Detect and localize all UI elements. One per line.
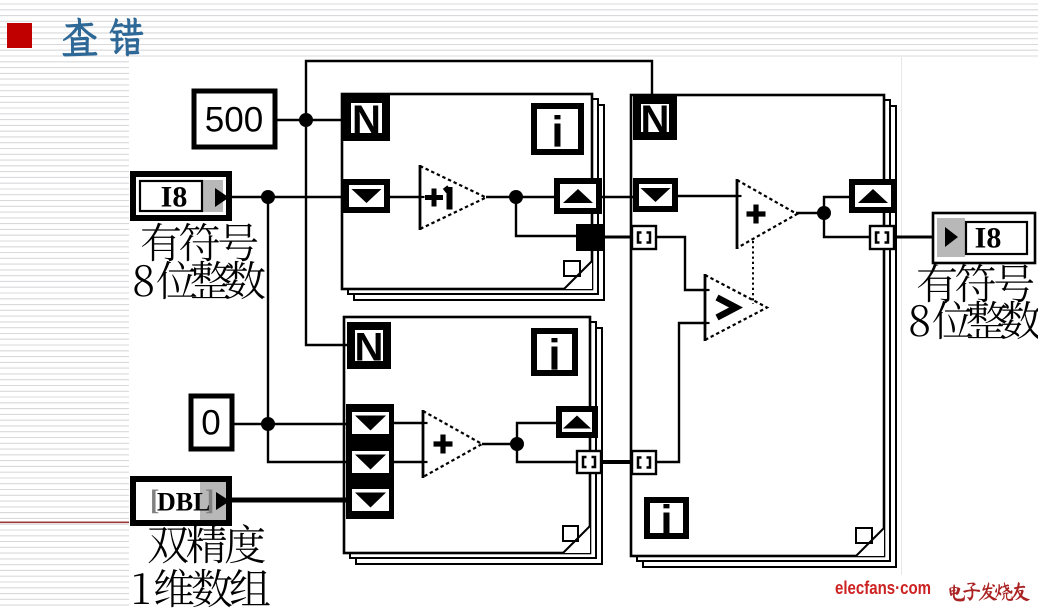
svg-text:N: N	[352, 98, 381, 142]
svg-text:i: i	[551, 108, 563, 157]
svg-text:DBL: DBL	[157, 488, 210, 517]
svg-text:i: i	[548, 331, 560, 380]
svg-text:N: N	[355, 326, 384, 370]
svg-text:]: ]	[205, 486, 214, 517]
svg-text:I8: I8	[161, 181, 188, 214]
svg-text:elecfans·com: elecfans·com	[835, 578, 931, 598]
svg-text:N: N	[641, 98, 670, 142]
svg-text:0: 0	[201, 404, 220, 443]
svg-text:I8: I8	[975, 222, 1002, 255]
svg-text:i: i	[660, 497, 672, 546]
svg-text:500: 500	[205, 101, 263, 140]
